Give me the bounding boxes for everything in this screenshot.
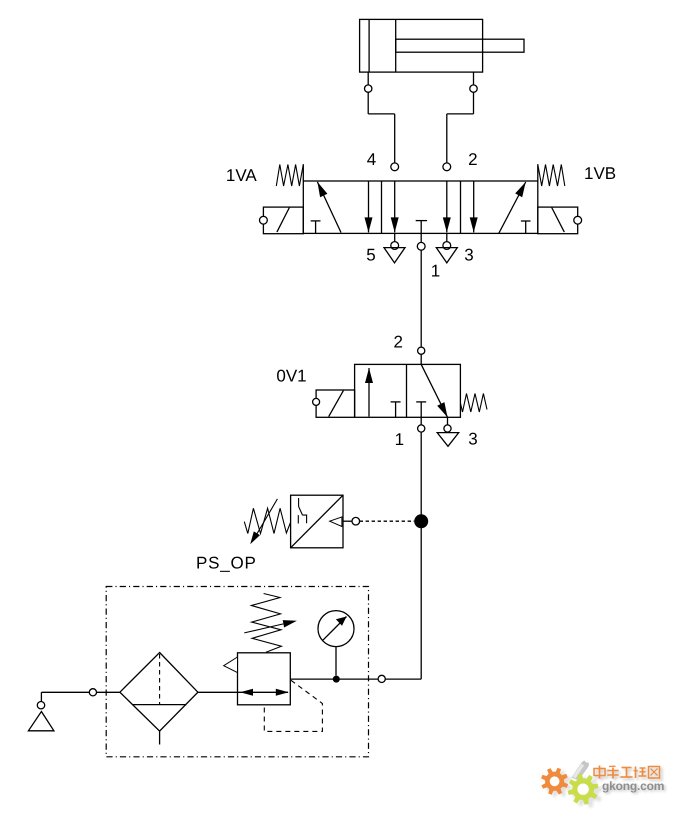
svg-text:1VB: 1VB xyxy=(584,164,616,183)
svg-text:PS_OP: PS_OP xyxy=(196,553,257,572)
svg-text:1VA: 1VA xyxy=(226,166,258,185)
svg-text:3: 3 xyxy=(468,430,477,449)
svg-text:0V1: 0V1 xyxy=(276,366,306,385)
svg-text:1: 1 xyxy=(395,430,404,449)
svg-text:2: 2 xyxy=(468,150,477,169)
svg-text:3: 3 xyxy=(464,245,473,264)
svg-text:5: 5 xyxy=(366,245,375,264)
svg-text:1: 1 xyxy=(431,261,440,280)
svg-text:4: 4 xyxy=(367,150,376,169)
svg-text:2: 2 xyxy=(393,332,402,351)
svg-text:gkong.com: gkong.com xyxy=(602,779,664,793)
